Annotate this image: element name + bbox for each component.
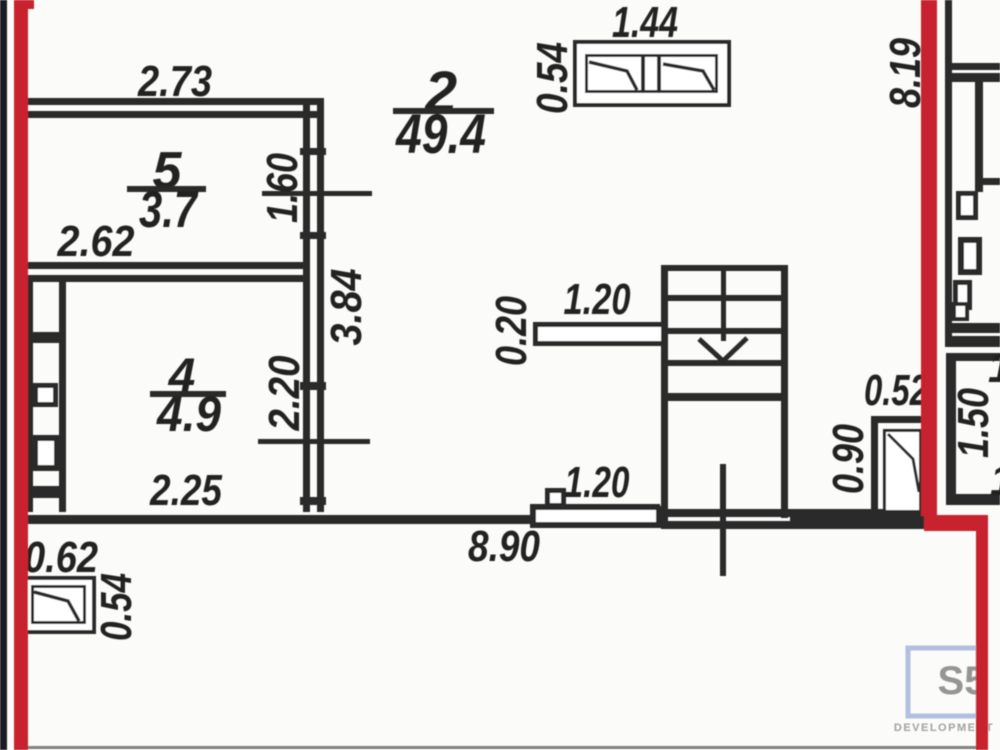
fixture 0.90 sash [888,434,919,492]
shaft box B [35,438,57,468]
window 0.62 sash [34,592,79,621]
opening 1.20 top border [530,504,660,510]
staircase tread 2 [668,328,781,334]
tick wall right y497 [300,497,326,505]
svg-text:2.73: 2.73 [137,57,212,106]
svg-text:4.9: 4.9 [156,386,221,442]
right shaft box 3 [956,283,970,308]
tick wall right y382 [300,382,326,390]
window 0.62 inner [33,587,85,623]
window 1.44 inner [587,56,717,92]
stub wall top border [533,322,661,327]
svg-text:8.90: 8.90 [468,522,540,571]
dimension line 1.60 [262,191,372,196]
svg-text:0.54: 0.54 [528,42,577,114]
main bottom wall under stair line2 [661,521,930,529]
fixture 0.90 top line [871,416,928,423]
right room 1.50 left wall [946,353,956,505]
svg-text:0.90: 0.90 [824,424,873,494]
window 1.44 outer [575,42,729,105]
red boundary left [14,0,28,750]
svg-text:1.50: 1.50 [949,388,998,458]
svg-text:1: 1 [990,456,1000,505]
wall room5 top line2 [28,111,324,118]
staircase right wall [781,265,788,518]
right area double wall top line1 [945,63,1000,70]
room 2 underline [393,108,494,114]
opening 1.20 white [530,504,660,528]
stub wall 0.20 white [533,322,661,346]
svg-text:1.: 1. [988,343,1000,392]
right room 1.50 bottom wall [946,494,1000,505]
window 1.44 divider right [657,56,661,92]
staircase center line [721,265,726,341]
wall room5 bottom line1 [28,262,308,269]
right area double wall mid line2 [945,336,1000,347]
right shaft box 1 [959,194,976,218]
svg-text:0.52: 0.52 [864,366,928,415]
staircase tread 1 [668,295,781,301]
photo edge left black [0,0,7,750]
shaft divider lower [28,486,66,498]
staircase left wall [661,265,668,518]
right shaft box 2 [961,240,979,272]
section line below staircase [720,464,726,576]
stub wall bottom border [533,341,661,346]
svg-text:1.20: 1.20 [564,275,631,324]
staircase down arrow chevron [699,338,747,361]
tick wall right y232 [300,232,326,239]
junction blob [656,506,668,528]
right room 1.50 top wall [946,353,1000,361]
window 1.44 divider left [641,56,645,92]
photo edge bottom gray line [25,746,988,749]
room 5 underline [127,186,206,192]
window 1.44 sash right [663,64,714,90]
shaft divider upper [28,332,66,343]
staircase tread 3 [668,360,781,366]
wall room5/4 right inner [303,98,310,512]
red boundary elbow horizontal [924,515,982,531]
opening 1.20 bottom border [530,522,660,528]
window 0.62 outer [24,578,94,632]
opening 1.20 left border [530,504,536,528]
wall room4 left [59,282,66,512]
red boundary bottom vertical [976,515,988,750]
right shaft small square [954,304,967,319]
shaft box A [36,386,56,405]
svg-text:3.84: 3.84 [322,269,371,346]
main bottom wall left segment [28,515,536,524]
svg-text:1.60: 1.60 [258,153,307,223]
svg-text:2.62: 2.62 [57,217,135,266]
window 1.44 sash left [589,62,637,90]
wall room5 bottom line2 [28,275,308,282]
svg-text:1.44: 1.44 [612,0,678,47]
right area tick [983,178,1000,185]
svg-text:2.25: 2.25 [149,466,222,515]
svg-text:0.20: 0.20 [487,296,536,366]
svg-text:3.7: 3.7 [139,181,199,239]
right area inner vertical thick [975,82,983,192]
svg-text:0.62: 0.62 [24,533,98,582]
tick wall right y150 [300,148,326,155]
fixture 0.90 left line [871,416,878,516]
svg-text:1.20: 1.20 [565,458,630,507]
svg-text:2.20: 2.20 [260,355,309,431]
red boundary right vertical [921,0,937,516]
red nub top-left [26,0,34,9]
wall room5 top line1 [28,98,324,105]
stub wall left border [533,322,538,346]
room 4 underline [150,391,226,397]
dimension line 2.20 [258,439,370,444]
right area double wall mid line1 [945,323,1000,333]
wall room5/4 right outer [317,98,324,512]
shaft strip left line [28,282,33,512]
S5 logo square [908,648,978,716]
fixture 0.90 inner [885,431,921,512]
staircase top edge [661,265,788,271]
main bottom wall under stair line1 [661,509,930,517]
right area vertical wall line [945,0,952,341]
right area double wall top line2 [945,73,1000,82]
staircase landing thick line [661,393,788,401]
main bottom wall right thick [790,514,928,526]
svg-text:49.4: 49.4 [395,102,486,165]
small square symbol near opening [548,491,564,506]
svg-text:0.54: 0.54 [92,573,141,641]
